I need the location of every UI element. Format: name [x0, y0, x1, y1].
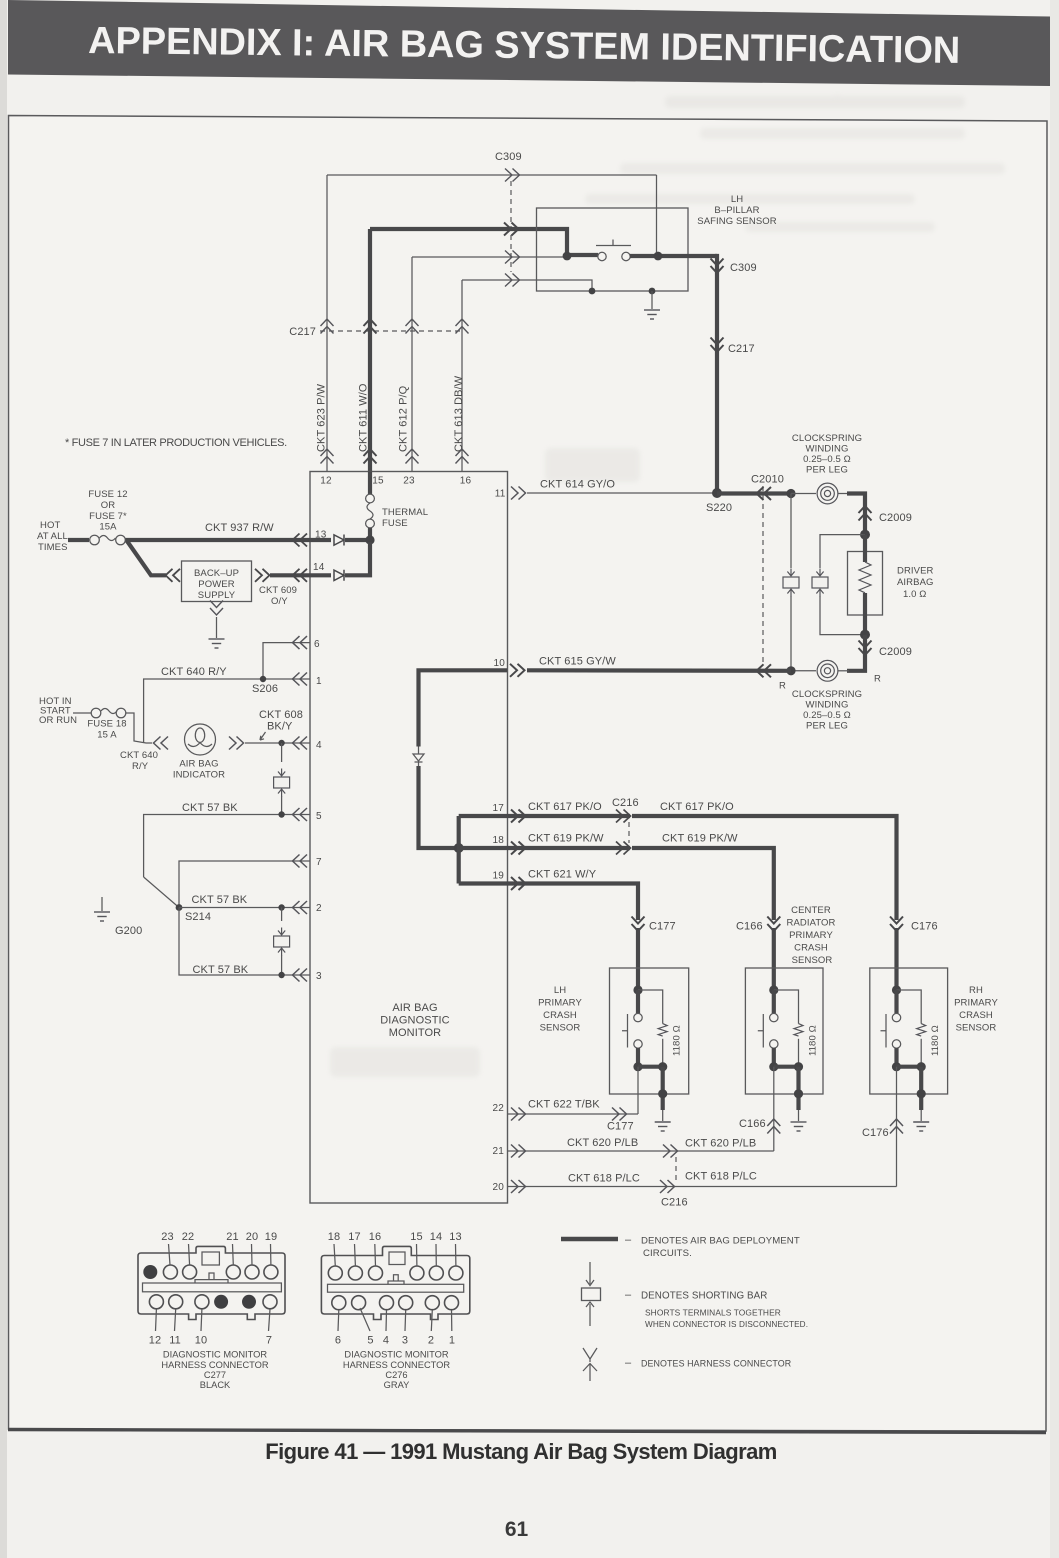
C277 cavity plugged A [214, 1295, 228, 1309]
svg-text:–: – [625, 1357, 632, 1369]
connector arrow pin 11 [511, 487, 526, 500]
wire pin 10 inside monitor [419, 670, 508, 746]
connector arrow pin 21 [511, 1145, 526, 1158]
svg-text:23: 23 [161, 1231, 173, 1243]
connector arrow pin 13 [293, 534, 308, 547]
connector C309 arrow lower [711, 259, 724, 274]
wire pin 7 [179, 861, 310, 908]
resistor 1180 ohm LH [658, 1024, 667, 1037]
svg-text:0.25–0.5 Ω: 0.25–0.5 Ω [803, 710, 851, 721]
wire CKT 612 P/Q vertical [411, 257, 413, 472]
svg-text:CKT 57 BK: CKT 57 BK [193, 964, 249, 976]
svg-text:C2009: C2009 [879, 512, 912, 524]
C277 cavity 7 [263, 1295, 277, 1309]
connector arrow pin 19 [511, 877, 526, 890]
svg-text:DIAGNOSTIC MONITOR: DIAGNOSTIC MONITOR [344, 1350, 448, 1360]
svg-text:16: 16 [369, 1231, 381, 1243]
svg-text:10: 10 [493, 658, 505, 669]
svg-text:7: 7 [316, 857, 322, 868]
resistor 1180 ohm center [794, 1024, 803, 1037]
svg-text:AIR BAG: AIR BAG [179, 759, 218, 770]
C216 dashed line upper [628, 822, 630, 843]
wire S220 to clockspring [717, 491, 791, 495]
wire RH bottom tie [897, 1065, 922, 1069]
svg-text:C217: C217 [289, 326, 316, 338]
diagram bottom border thick [8, 1430, 1046, 1433]
svg-text:PER LEG: PER LEG [806, 721, 848, 732]
svg-text:DENOTES HARNESS CONNECTOR: DENOTES HARNESS CONNECTOR [641, 1359, 791, 1369]
node center resistor bottom [794, 1062, 803, 1071]
svg-text:HARNESS CONNECTOR: HARNESS CONNECTOR [343, 1360, 451, 1370]
connector arrow pin 7 [293, 855, 308, 868]
thermal fuse lower lead [368, 528, 372, 540]
wire CKT 620 P/LB pin 21 [508, 1150, 774, 1152]
svg-text:SENSOR: SENSOR [540, 1023, 581, 1034]
svg-text:CKT 609: CKT 609 [259, 585, 297, 596]
svg-text:–: – [625, 1234, 632, 1246]
svg-text:CKT 615 GY/W: CKT 615 GY/W [539, 656, 616, 668]
svg-text:C216: C216 [661, 1197, 688, 1209]
svg-text:OR RUN: OR RUN [39, 715, 77, 726]
shorting bar airbag loop [820, 535, 865, 568]
C276 cavity 18 [328, 1266, 342, 1280]
svg-text:15 A: 15 A [97, 730, 117, 741]
svg-text:12: 12 [149, 1335, 161, 1347]
wire branch to back-up power supply [127, 541, 166, 575]
wire CKT 608 BK/Y to pin 4 [245, 742, 310, 744]
svg-text:FUSE 7*: FUSE 7* [89, 511, 127, 522]
svg-text:20: 20 [492, 1182, 504, 1193]
C276 pin leads bottom [338, 1308, 452, 1331]
C277 cavity 23 [163, 1265, 177, 1279]
svg-text:MONITOR: MONITOR [389, 1027, 441, 1039]
svg-text:1: 1 [449, 1335, 455, 1347]
C277 cavity plugged B [242, 1295, 256, 1309]
svg-text:0.25–0.5 Ω: 0.25–0.5 Ω [803, 454, 851, 465]
svg-text:BLACK: BLACK [200, 1380, 231, 1390]
wire LH bottom tie [638, 1065, 663, 1069]
svg-text:AIRBAG: AIRBAG [897, 577, 934, 588]
svg-text:WINDING: WINDING [806, 444, 849, 455]
svg-text:CKT 613 DB/W: CKT 613 DB/W [453, 375, 465, 452]
C276 cavity 1 [445, 1296, 459, 1310]
svg-text:6: 6 [314, 639, 320, 650]
svg-text:CKT 612 P/Q: CKT 612 P/Q [398, 385, 410, 452]
svg-text:CKT 622 T/BK: CKT 622 T/BK [528, 1099, 600, 1111]
svg-text:4: 4 [316, 740, 322, 751]
driver airbag squib leads [863, 535, 867, 562]
wire CKT 613 run to safing sensor [462, 280, 592, 291]
svg-text:C166: C166 [736, 921, 763, 933]
svg-text:S214: S214 [185, 911, 211, 923]
svg-text:21: 21 [226, 1231, 238, 1243]
C276 pin leads top [334, 1244, 456, 1266]
diode at pin 14 [334, 570, 344, 581]
node on sensor bottom edge right [649, 288, 656, 295]
center radiator primary crash sensor box [745, 968, 823, 1094]
connector arrow pin 10 [510, 664, 525, 677]
ground back-up supply [209, 639, 225, 648]
wire RH sense return [896, 1067, 898, 1187]
svg-text:CKT 620 P/LB: CKT 620 P/LB [567, 1137, 638, 1149]
svg-text:5: 5 [367, 1335, 373, 1347]
svg-text:CENTER: CENTER [791, 905, 831, 916]
svg-text:DIAGNOSTIC MONITOR: DIAGNOSTIC MONITOR [163, 1350, 267, 1360]
svg-text:CKT 621 W/Y: CKT 621 W/Y [528, 869, 597, 881]
C277 cavity 19 [264, 1265, 278, 1279]
svg-text:C177: C177 [607, 1121, 634, 1133]
air bag diagnostic monitor box [310, 472, 508, 1204]
connector arrow into back-up supply [166, 569, 181, 582]
svg-text:14: 14 [313, 562, 325, 573]
svg-text:CKT 617 PK/O: CKT 617 PK/O [660, 801, 734, 813]
svg-text:7: 7 [266, 1335, 272, 1347]
node LH box bottom [658, 1089, 667, 1098]
fuse 12 symbol [90, 535, 100, 545]
node clockspring bottom left junction [786, 666, 795, 675]
svg-text:C2010: C2010 [751, 474, 784, 486]
svg-text:C276: C276 [385, 1370, 407, 1380]
svg-text:–: – [625, 1289, 632, 1301]
connector C216 arrow row18 [616, 842, 631, 855]
wire diode to node [345, 542, 370, 575]
svg-text:DIAGNOSTIC: DIAGNOSTIC [380, 1015, 449, 1027]
svg-text:C176: C176 [911, 921, 938, 933]
connector C276 middle bar [328, 1284, 464, 1292]
svg-text:13: 13 [315, 530, 327, 541]
svg-text:C216: C216 [612, 797, 639, 809]
svg-text:CRASH: CRASH [959, 1010, 993, 1021]
svg-text:DENOTES AIR BAG DEPLOYMENT: DENOTES AIR BAG DEPLOYMENT [641, 1236, 800, 1247]
wire fuse 18 to indicator [126, 713, 152, 743]
svg-text:3: 3 [316, 971, 322, 982]
diode at pin 13 [334, 535, 344, 546]
wire thick safing sensor output down [715, 256, 717, 493]
connector C277 latch detail [202, 1252, 219, 1265]
ground lead [216, 617, 218, 638]
C277 cavity 10 [195, 1295, 209, 1309]
connector C2010 arrow lower [757, 664, 772, 677]
svg-text:C2009: C2009 [879, 646, 912, 658]
node on sensor bottom edge left [589, 288, 596, 295]
ground at safing sensor [651, 291, 653, 309]
svg-text:14: 14 [430, 1231, 442, 1243]
LH B-pillar safing sensor box [537, 208, 689, 291]
driver airbag resistance [859, 562, 871, 593]
svg-text:61: 61 [505, 1518, 529, 1541]
svg-text:17: 17 [492, 803, 504, 814]
connector C216 arrow row17 [616, 810, 631, 823]
svg-text:15: 15 [372, 476, 384, 487]
svg-text:B–PILLAR: B–PILLAR [714, 205, 759, 216]
wire switch to right terminal [630, 254, 717, 258]
wire CKT 617 PK/O right [632, 816, 897, 920]
node junction right of switch [654, 252, 663, 261]
svg-text:RH: RH [969, 985, 983, 996]
connector C176 arrow bottom [890, 1119, 903, 1134]
wire CKT 611 thick run to safing sensor [370, 229, 598, 255]
C276 cavity 5 [352, 1296, 366, 1310]
svg-text:11: 11 [169, 1335, 181, 1347]
legend shorting bar symbol [589, 1262, 591, 1284]
svg-text:SAFING SENSOR: SAFING SENSOR [697, 216, 776, 227]
connector C277 center key [195, 1273, 228, 1283]
C276 cavity 15 [410, 1266, 424, 1280]
svg-text:INDICATOR: INDICATOR [173, 770, 225, 781]
C277 cavity 22 [183, 1265, 197, 1279]
wire hot in start stub [73, 712, 91, 714]
svg-text:CKT 617 PK/O: CKT 617 PK/O [528, 801, 602, 813]
node center box bottom [794, 1089, 803, 1098]
C277 pin leads top [169, 1244, 271, 1265]
C2010 dashed connector line [762, 486, 764, 664]
node S220 [712, 488, 722, 498]
wire RH to ground [919, 1067, 923, 1110]
wire CKT 640 R/Y pin 1 [144, 679, 310, 743]
svg-text:BK/Y: BK/Y [267, 721, 293, 733]
wire CKT 937 R/W to pin 13 [126, 538, 332, 542]
connector C2010 arrow upper [757, 487, 772, 500]
C277 pin leads bottom [156, 1309, 271, 1331]
svg-text:CKT 57 BK: CKT 57 BK [182, 802, 238, 814]
svg-text:DENOTES SHORTING BAR: DENOTES SHORTING BAR [641, 1291, 767, 1302]
wire CKT 619 PK/W (left) [459, 846, 630, 850]
connector C176 arrow [890, 917, 903, 932]
svg-text:R: R [874, 674, 881, 685]
connector arrow pin 1 [293, 673, 308, 686]
node RH sensor top [892, 985, 901, 994]
svg-text:SUPPLY: SUPPLY [198, 590, 236, 601]
svg-text:PRIMARY: PRIMARY [954, 998, 998, 1009]
svg-text:4: 4 [383, 1335, 389, 1347]
connector C277 shell [138, 1246, 285, 1319]
connector C217 arrow on CKT612 [406, 319, 419, 334]
C276 cavity 16 [369, 1266, 383, 1280]
node S206 [260, 676, 266, 682]
svg-text:HARNESS CONNECTOR: HARNESS CONNECTOR [161, 1360, 269, 1370]
svg-text:GRAY: GRAY [384, 1380, 410, 1390]
fuse 18 symbol [91, 708, 101, 718]
svg-text:OR: OR [101, 500, 115, 511]
shorting bar pins 4-5 [281, 743, 283, 762]
svg-text:1: 1 [316, 676, 322, 687]
connector C277 middle bar [143, 1283, 282, 1292]
connector C217 arrow on CKT613 [456, 319, 469, 334]
connector C309 arrow on CKT613 wire [505, 274, 520, 287]
C276 cavity 3 [399, 1296, 413, 1310]
svg-text:S220: S220 [706, 502, 732, 514]
connector C217 arrow on CKT611 [364, 319, 377, 334]
svg-text:PER LEG: PER LEG [806, 465, 848, 476]
C276 cavity 6 [332, 1296, 346, 1310]
svg-text:1180 Ω: 1180 Ω [807, 1025, 818, 1056]
svg-text:S206: S206 [252, 683, 278, 695]
connector C309 arrow on thick wire [504, 223, 519, 236]
wire C166 into sensor [772, 928, 776, 990]
wire center sense return [773, 1067, 775, 1151]
svg-text:CRASH: CRASH [543, 1010, 577, 1021]
svg-text:LH: LH [554, 985, 566, 996]
connector C309 arrow on top wire [505, 169, 520, 182]
svg-text:19: 19 [492, 871, 504, 882]
svg-text:CKT 611 W/O: CKT 611 W/O [358, 383, 370, 452]
svg-text:20: 20 [246, 1231, 258, 1243]
svg-text:13: 13 [449, 1231, 461, 1243]
svg-text:TIMES: TIMES [38, 542, 68, 553]
wire CKT 609 O/Y to pin 14 [270, 573, 331, 577]
legend thick line sample [561, 1237, 618, 1242]
svg-text:C309: C309 [495, 151, 522, 163]
node bus junction [454, 843, 464, 853]
node center sensor top [769, 985, 778, 994]
svg-text:C309: C309 [730, 262, 757, 274]
svg-text:FUSE 12: FUSE 12 [88, 489, 127, 500]
wire diode to thermal fuse node [345, 538, 370, 542]
connector C276 center key [388, 1275, 404, 1285]
ground center sensor [798, 1110, 800, 1121]
svg-text:R/Y: R/Y [132, 761, 149, 772]
wire sense line from switch node up [656, 175, 658, 252]
svg-text:O/Y: O/Y [271, 596, 288, 607]
connector C217 arrow on CKT623 [321, 319, 334, 334]
svg-text:CKT 640 R/Y: CKT 640 R/Y [161, 666, 227, 678]
node pin 2 [278, 904, 284, 910]
svg-text:2: 2 [428, 1335, 434, 1347]
svg-text:C217: C217 [728, 343, 755, 355]
connector arrow pin 4 [293, 737, 308, 750]
svg-text:21: 21 [492, 1146, 504, 1157]
svg-text:C176: C176 [862, 1127, 889, 1139]
connector C276 shell [321, 1246, 469, 1319]
C276 cavity 2 [425, 1296, 439, 1310]
C276 cavity 17 [348, 1266, 362, 1280]
connector arrow pin 22 [511, 1108, 526, 1121]
shorting bar clockspring left [790, 494, 792, 569]
node center switch bottom [769, 1062, 778, 1071]
wire CKT 617 PK/O (left) [459, 814, 630, 818]
wire CKT 619 PK/W right [632, 848, 774, 920]
svg-text:LH: LH [731, 194, 743, 205]
svg-text:CRASH: CRASH [794, 943, 828, 954]
ground G200 [101, 897, 103, 911]
svg-text:CKT 619 PK/W: CKT 619 PK/W [528, 833, 604, 845]
C277 cavity 11 [169, 1295, 183, 1309]
node LH resistor bottom [658, 1062, 667, 1071]
svg-text:CLOCKSPRING: CLOCKSPRING [792, 689, 862, 700]
wire CKT 615 GY/W [527, 668, 791, 673]
wire CKT 621 W/Y [459, 884, 638, 921]
connector C276 latch detail [389, 1252, 405, 1265]
center sensor resistor branch [774, 990, 799, 1024]
LH primary crash sensor box [610, 968, 689, 1094]
node RH switch bottom [892, 1062, 901, 1071]
C276 cavity 14 [429, 1266, 443, 1280]
ground arrow below back-up supply [210, 601, 223, 616]
svg-text:C166: C166 [739, 1118, 766, 1130]
ground RH sensor [920, 1110, 922, 1121]
connector C177 arrow bottom [612, 1108, 627, 1121]
svg-text:DRIVER: DRIVER [897, 566, 934, 577]
svg-text:FUSE: FUSE [382, 518, 408, 529]
wire CKT 618 P/LC pin 20 [508, 1186, 897, 1188]
connector arrow pin 17 [511, 810, 526, 823]
svg-text:HOT: HOT [40, 520, 60, 531]
connector C217 arrow on thick vertical [711, 338, 724, 353]
svg-text:11: 11 [495, 489, 506, 500]
diode inside monitor [413, 747, 424, 768]
wire LH sense return [637, 1067, 639, 1114]
clockspring winding top [791, 493, 816, 495]
svg-text:CKT 614 GY/O: CKT 614 GY/O [540, 479, 615, 491]
svg-text:17: 17 [348, 1231, 360, 1243]
leader arrow for CKT 608 [260, 732, 266, 740]
wire C2009 to clockspring bottom [847, 635, 865, 671]
svg-text:1180 Ω: 1180 Ω [672, 1025, 683, 1056]
svg-text:6: 6 [335, 1335, 341, 1347]
connector arrow before indicator [154, 737, 169, 750]
node clockspring top left junction [786, 489, 795, 498]
connector C309 arrow on CKT612 wire [505, 251, 520, 264]
svg-text:THERMAL: THERMAL [382, 507, 428, 518]
connector C166 arrow [767, 917, 780, 932]
C217 dashed connector line [320, 330, 462, 332]
svg-text:WINDING: WINDING [806, 700, 849, 711]
svg-text:3: 3 [402, 1335, 408, 1347]
svg-text:CKT 640: CKT 640 [120, 750, 158, 761]
svg-text:BACK–UP: BACK–UP [194, 568, 239, 579]
wire CKT 623 top run to safing sensor [327, 174, 657, 176]
wire CKT 611 W/O vertical thick [368, 229, 372, 472]
node LH switch bottom [633, 1062, 642, 1071]
node pin 3 [278, 972, 284, 978]
svg-text:CLOCKSPRING: CLOCKSPRING [792, 433, 862, 444]
svg-text:12: 12 [320, 476, 332, 487]
connector C2009 arrow bottom [859, 641, 872, 656]
resistor 1180 ohm RH [917, 1024, 926, 1037]
scan bleed-through artifacts (decorative) [330, 95, 1005, 1077]
wire CKT 622 T/BK pin 22 [508, 1113, 639, 1115]
svg-text:CKT 618 P/LC: CKT 618 P/LC [568, 1173, 640, 1185]
svg-text:19: 19 [265, 1231, 277, 1243]
connector arrow pin 20 [511, 1180, 526, 1193]
svg-text:18: 18 [492, 835, 504, 846]
svg-text:CKT 608: CKT 608 [259, 709, 303, 721]
svg-text:1.0 Ω: 1.0 Ω [903, 589, 926, 600]
svg-text:CKT 57 BK: CKT 57 BK [192, 894, 248, 906]
connector arrow pin 14 [293, 569, 308, 582]
driver airbag box [848, 552, 883, 616]
safing sensor switch bar [596, 240, 631, 246]
svg-text:PRIMARY: PRIMARY [789, 930, 833, 941]
wire CKT 613 DB/W vertical [461, 280, 463, 472]
thermal fuse lead [368, 472, 372, 495]
RH primary crash sensor box [870, 968, 948, 1094]
C277 cavity 24 plugged [143, 1265, 157, 1279]
wire CKT 57 BK pin 2 [179, 907, 310, 909]
wire CKT 57 BK pin 3 [179, 908, 310, 976]
header banner [8, 0, 1050, 86]
svg-text:AIR BAG: AIR BAG [392, 1002, 437, 1014]
wire pin 6 [263, 643, 310, 679]
LH sensor resistor branch [638, 990, 663, 1024]
svg-text:22: 22 [182, 1231, 194, 1243]
node airbag top [860, 530, 870, 540]
svg-text:PRIMARY: PRIMARY [538, 998, 582, 1009]
wire CKT 623 P/W vertical [326, 175, 328, 472]
wire hot feed stub [68, 538, 89, 542]
wire diagonal to S214 [144, 877, 179, 908]
svg-text:SENSOR: SENSOR [792, 955, 833, 966]
